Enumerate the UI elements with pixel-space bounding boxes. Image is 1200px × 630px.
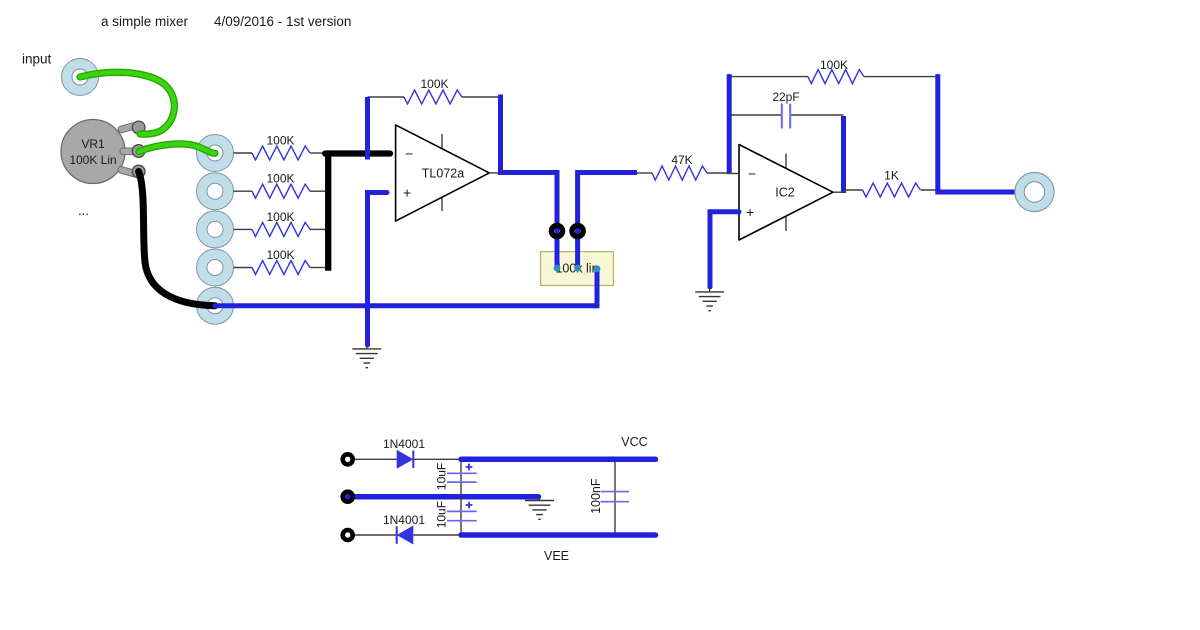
output pad — [1015, 172, 1054, 211]
ground G3 — [525, 500, 554, 502]
svg-text:100K: 100K — [266, 134, 294, 148]
resistor R3 100K — [252, 222, 310, 236]
wire P2 pin3 to bus — [595, 269, 600, 309]
resistor R3 leads — [234, 228, 253, 230]
pad via 2 — [572, 225, 583, 236]
op-amp U1 feedback lead right — [462, 96, 501, 98]
ground G3 stub — [539, 497, 541, 501]
wire black bus vertical — [325, 151, 331, 271]
svg-text:100K: 100K — [820, 58, 848, 72]
pad via 1 — [551, 225, 562, 236]
wire U1 plus to ground — [368, 193, 388, 346]
capacitor bus vertical — [460, 459, 462, 535]
wire black bus to U1 minus — [325, 150, 390, 156]
svg-text:100K Lin: 100K Lin — [69, 153, 116, 167]
svg-text:IC2: IC2 — [775, 186, 795, 200]
power pad 3 — [343, 530, 353, 540]
green wire input to VR1 pin1 — [80, 72, 174, 134]
capacitor C2 10uF plates — [447, 472, 477, 474]
ground G2 stub — [709, 287, 711, 292]
svg-text:+: + — [746, 204, 754, 220]
svg-text:input: input — [22, 52, 52, 67]
op-amp U1 output lead — [489, 172, 501, 174]
channel pad 3 — [197, 211, 234, 248]
diode D1 1N4001 — [397, 450, 414, 469]
wire reference bus — [215, 303, 597, 308]
svg-text:VEE: VEE — [544, 549, 569, 563]
potentiometer VR1 body — [61, 120, 125, 184]
wire U2 minus vertical — [727, 74, 732, 173]
resistor R7 100K feedback — [808, 70, 864, 84]
green wire VR1 pin2 to pad1 — [139, 144, 215, 153]
op-amp U1 feedback lead left — [368, 96, 405, 98]
channel pad 2 — [197, 173, 234, 210]
op-amp U1 triangle — [396, 125, 490, 221]
wire U2 plus to ground — [710, 212, 739, 287]
P2 pin dot 1 — [554, 265, 561, 272]
svg-text:1N4001: 1N4001 — [383, 513, 425, 527]
resistor R1 100K — [252, 146, 310, 160]
svg-text:100nF: 100nF — [589, 478, 603, 514]
capacitor C4 100nF plates — [601, 491, 630, 493]
resistor R4 leads — [234, 267, 253, 269]
resistor R8 1K — [863, 183, 921, 197]
wire 0V middle — [348, 494, 539, 500]
resistor R4 100K — [252, 261, 310, 275]
resistor R6 leads — [637, 172, 652, 174]
svg-text:100K: 100K — [266, 248, 294, 262]
op-amp U2 feedback lead right — [864, 76, 938, 78]
svg-text:100K: 100K — [266, 210, 294, 224]
capacitor C1 22pF plates — [781, 104, 783, 129]
capacitor C3 plus sign — [466, 502, 473, 509]
capacitor C1 leads — [729, 114, 782, 116]
power pad 1 — [343, 454, 353, 464]
wire C1 right vertical — [841, 116, 846, 193]
svg-text:1K: 1K — [884, 169, 899, 183]
wire VCC rail — [461, 457, 656, 463]
diode D2 leads — [355, 534, 397, 536]
svg-text:100K: 100K — [420, 77, 448, 91]
wire VEE rail — [461, 532, 656, 538]
svg-text:10uF: 10uF — [435, 501, 449, 528]
op-amp U2 power ticks — [785, 154, 787, 169]
svg-text:VR1: VR1 — [81, 137, 105, 151]
svg-text:TL072a: TL072a — [422, 167, 464, 181]
wire output — [935, 190, 1017, 195]
wire U1 feedback left vertical — [365, 97, 370, 160]
resistor R1 leads — [234, 152, 253, 154]
capacitor C3 10uF plates — [447, 510, 477, 512]
op-amp U1 power ticks — [441, 134, 443, 149]
input pad — [62, 59, 99, 96]
op-amp U2 minus lead — [727, 173, 739, 175]
wire U1 output — [498, 173, 557, 268]
svg-text:a simple mixer: a simple mixer — [101, 14, 189, 29]
svg-text:4/09/2016 - 1st version: 4/09/2016 - 1st version — [214, 14, 351, 29]
svg-text:...: ... — [78, 203, 89, 218]
svg-text:VCC: VCC — [621, 435, 647, 449]
op-amp U2 feedback lead left — [729, 76, 808, 78]
channel pad 5 — [197, 287, 234, 324]
channel pad 1 — [197, 135, 234, 172]
svg-text:1N4001: 1N4001 — [383, 437, 425, 451]
VR1 terminal 1 — [132, 121, 145, 134]
svg-text:−: − — [748, 166, 756, 182]
VR1 terminal 3 — [132, 165, 145, 178]
resistor R2 leads — [234, 190, 253, 192]
diode D1 leads — [355, 458, 397, 460]
channel pad 4 — [197, 249, 234, 286]
VR1 terminal stubs — [117, 122, 138, 178]
ground G2 — [695, 291, 724, 293]
resistor R8 leads — [844, 189, 863, 191]
resistor R5 100K feedback — [404, 90, 462, 104]
wire U2 feedback right vertical — [935, 74, 940, 192]
resistor R2 100K — [252, 184, 310, 198]
wire pot pin2 to 47K — [578, 173, 637, 269]
capacitor C2 plus sign — [466, 464, 473, 471]
potentiometer P2 body — [541, 252, 614, 286]
resistor R6 47K — [652, 166, 707, 180]
svg-text:10uF: 10uF — [435, 463, 449, 490]
wire U1 feedback right vertical — [498, 95, 503, 173]
op-amp U2 triangle — [739, 145, 833, 241]
capacitor C4 lead — [614, 459, 616, 535]
VR1 terminal 2 — [132, 145, 145, 158]
svg-text:−: − — [405, 146, 413, 162]
P2 pin dot 2 — [574, 265, 581, 272]
svg-text:47K: 47K — [671, 153, 692, 167]
diode D2 1N4001 — [397, 526, 414, 545]
P2 pin dot 3 — [594, 265, 601, 272]
ground G1 — [352, 348, 381, 350]
black wire VR1 pin3 to pad5 — [139, 172, 215, 306]
ground G1 stub — [366, 345, 368, 349]
op-amp U2 output lead — [833, 191, 846, 193]
svg-text:100K: 100K — [266, 172, 294, 186]
svg-text:+: + — [403, 185, 411, 201]
power pad 2 — [343, 492, 353, 502]
svg-text:22pF: 22pF — [772, 90, 799, 104]
